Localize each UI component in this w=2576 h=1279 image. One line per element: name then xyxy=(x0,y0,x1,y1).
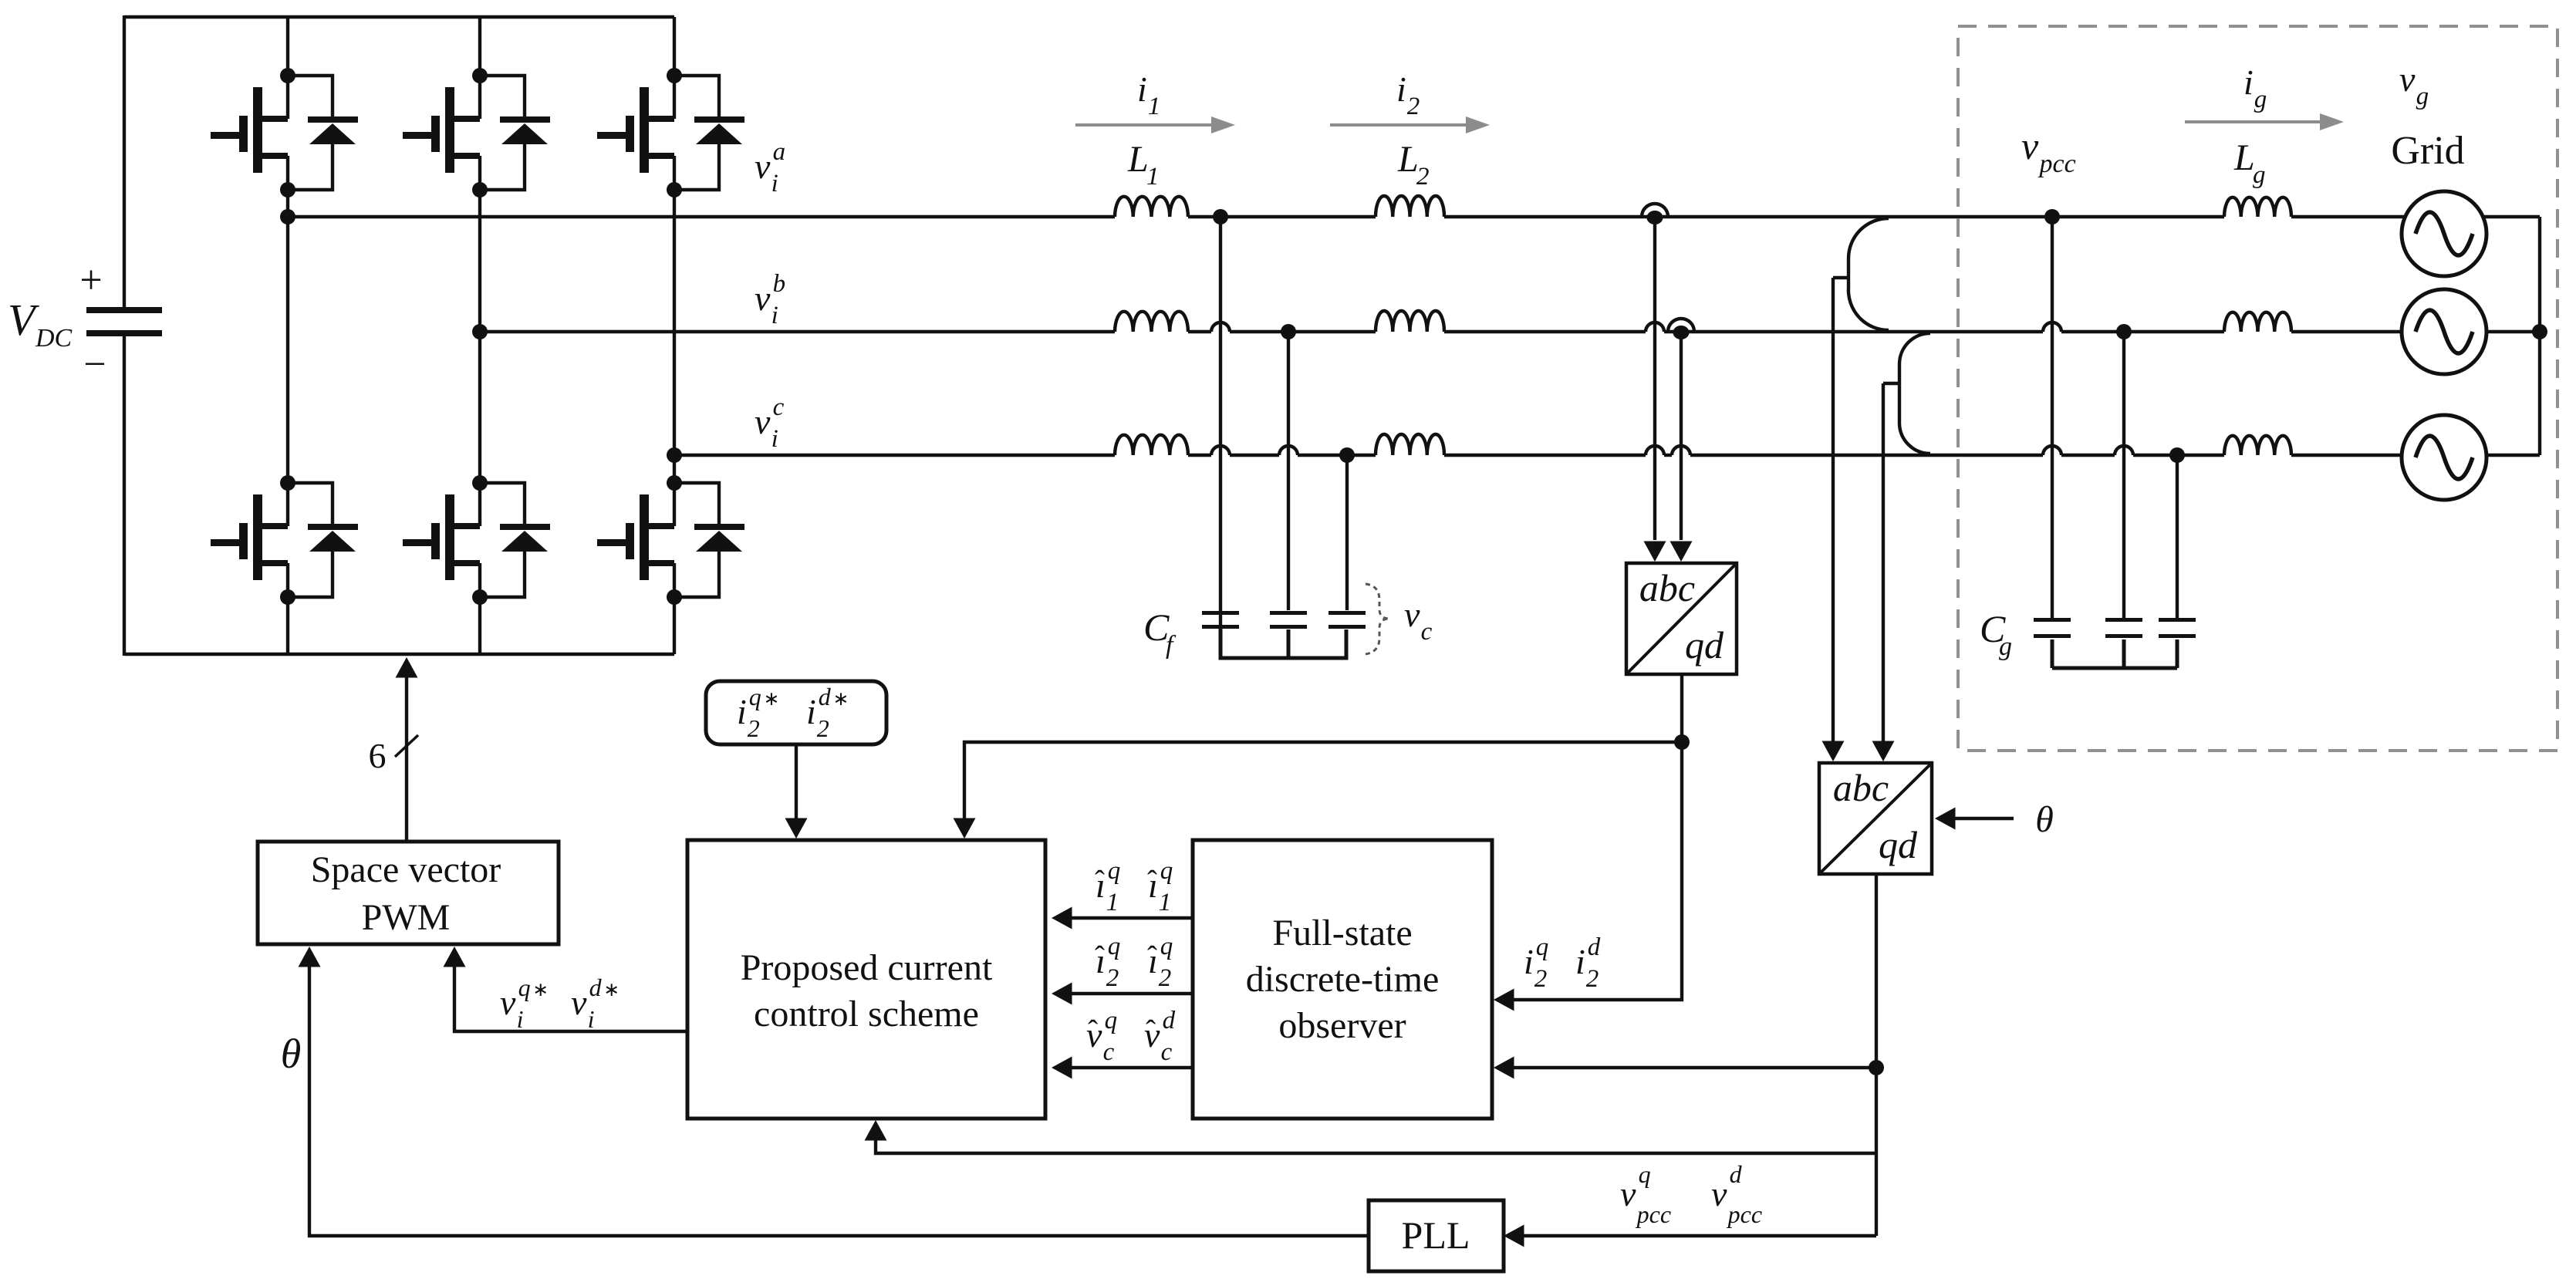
node: phase b output junction xyxy=(472,324,488,339)
svg-text:qd: qd xyxy=(1685,623,1724,666)
block U2: abc/qd transform (vpcc) xyxy=(1819,763,1932,874)
svg-text:c: c xyxy=(1421,618,1433,646)
svg-text:∗: ∗ xyxy=(603,980,620,1001)
transistor Q6 lower MOSFET with body diode, phase c xyxy=(597,475,744,605)
svg-text:v: v xyxy=(1711,1174,1727,1213)
wire: Cg tap phase c xyxy=(2176,455,2179,618)
svg-text:d: d xyxy=(1730,1160,1743,1188)
svg-text:q: q xyxy=(1108,933,1121,960)
svg-text:q: q xyxy=(1639,1160,1651,1188)
svg-text:abc: abc xyxy=(1833,766,1889,809)
inductor Lg phase c xyxy=(2224,436,2291,455)
svg-text:v: v xyxy=(571,983,587,1022)
wire: vpcc tap loop phase a xyxy=(1848,218,1889,330)
svg-text:6: 6 xyxy=(369,736,387,775)
wire: i2 feedback to current control xyxy=(964,742,1682,834)
wire: vi* reference to SVPWM xyxy=(454,953,687,1031)
svg-text:q: q xyxy=(1105,1007,1118,1034)
wire: phase b hop over vpcc tap a xyxy=(2043,322,2061,332)
svg-text:discrete-time: discrete-time xyxy=(1246,959,1440,1000)
wire: phase c conductor xyxy=(674,454,1115,457)
wire: vpcc qd to PLL xyxy=(1510,1234,1876,1237)
svg-text:ˆ: ˆ xyxy=(1088,1014,1098,1048)
svg-text:PLL: PLL xyxy=(1402,1213,1470,1257)
svg-text:i: i xyxy=(806,692,816,731)
transistor Q1 upper MOSFET with body diode, phase a xyxy=(211,68,358,197)
svg-text:PWM: PWM xyxy=(362,897,451,938)
AC source vg phase c xyxy=(2402,415,2487,500)
svg-text:Space vector: Space vector xyxy=(311,849,501,890)
wire: vpcc qd to current control xyxy=(876,1126,1876,1153)
svg-text:c: c xyxy=(773,393,785,421)
wire: phase b hop over Cf tap a xyxy=(1211,322,1230,332)
capacitor Cg phase b xyxy=(2105,618,2142,622)
wire: leg b midpoint to phase line xyxy=(478,190,481,483)
svg-text:Proposed current: Proposed current xyxy=(741,947,993,988)
wire: Cf tap phase b xyxy=(1287,332,1290,610)
svg-text:i: i xyxy=(771,170,778,197)
svg-text:i: i xyxy=(2243,62,2254,102)
node: vpcc phase b xyxy=(2116,324,2132,339)
svg-text:i: i xyxy=(517,1005,524,1033)
wire: current sense b to abc/qd xyxy=(1680,332,1683,540)
capacitor Cf phase b xyxy=(1270,611,1307,615)
block: Proposed current control scheme xyxy=(687,840,1045,1119)
wire: phase c hop over current sense a xyxy=(1646,446,1664,455)
wire: Cg tap phase a xyxy=(2051,217,2054,618)
svg-text:g: g xyxy=(1999,633,2012,661)
svg-text:v: v xyxy=(755,278,771,318)
wire: current sense a to abc/qd xyxy=(1653,217,1656,540)
capacitor Cf phase c xyxy=(1329,611,1366,615)
capacitor Cg phase a xyxy=(2034,618,2071,622)
label 6 with slash xyxy=(395,735,418,757)
svg-text:q: q xyxy=(1160,857,1173,885)
wire: top DC rail xyxy=(124,15,674,19)
svg-text:+: + xyxy=(79,258,102,302)
wire: leg a midpoint to phase line xyxy=(286,190,289,483)
svg-text:i: i xyxy=(771,425,778,453)
wire: leg a upper (rail to transistor) xyxy=(286,17,289,76)
wire: leg c midpoint to phase line xyxy=(673,190,676,483)
wire: vpcc qd feedback trunk xyxy=(1875,874,1878,1236)
block: Space vector PWM xyxy=(258,842,559,944)
node: Cf tap c junction xyxy=(1339,447,1355,463)
wire: current arrow ig xyxy=(2185,120,2335,123)
svg-text:θ: θ xyxy=(2035,799,2054,840)
svg-text:2: 2 xyxy=(1407,93,1420,120)
svg-text:2: 2 xyxy=(1159,964,1172,992)
svg-text:abc: abc xyxy=(1639,566,1695,609)
transistor Q5 upper MOSFET with body diode, phase c xyxy=(597,68,744,197)
node: vpcc qd junction xyxy=(1869,1060,1884,1075)
wire: leg c upper (rail to transistor) xyxy=(673,17,676,76)
svg-text:ˆ: ˆ xyxy=(1095,865,1105,898)
wire: theta input to abc/qd xyxy=(1941,817,2014,820)
svg-text:q: q xyxy=(1536,933,1549,961)
wire: leg b upper (rail to transistor) xyxy=(478,17,481,76)
wire: Cg stub b xyxy=(2122,639,2126,668)
wire: Cg bottom bus xyxy=(2052,666,2177,670)
wire: phase a conductor xyxy=(288,215,1115,218)
transistor Q2 lower MOSFET with body diode, phase a xyxy=(211,475,358,605)
svg-text:ˆ: ˆ xyxy=(1146,1014,1156,1048)
wire: observer output vchat xyxy=(1058,1066,1193,1069)
wire: phase c hop over Cf tap b xyxy=(1279,446,1298,455)
svg-text:g: g xyxy=(2253,161,2266,189)
capacitor Cf phase a xyxy=(1202,611,1239,615)
wire: Cg stub c xyxy=(2176,639,2179,668)
wire: bottom DC rail xyxy=(124,653,674,656)
inductor L1 phase a xyxy=(1115,197,1188,217)
svg-text:qd: qd xyxy=(1879,823,1918,866)
svg-text:2: 2 xyxy=(1416,163,1430,191)
svg-text:ˆ: ˆ xyxy=(1095,940,1105,974)
svg-text:1: 1 xyxy=(1146,163,1160,191)
svg-text:2: 2 xyxy=(1586,965,1599,993)
svg-text:c: c xyxy=(1103,1038,1115,1066)
wire: Cg stub a xyxy=(2051,639,2054,668)
inductor L2 phase b xyxy=(1376,311,1444,332)
svg-text:∗: ∗ xyxy=(832,689,849,710)
node: Cf tap a junction xyxy=(1213,209,1228,224)
svg-text:DC: DC xyxy=(35,324,73,353)
svg-text:∗: ∗ xyxy=(532,980,549,1001)
svg-text:v: v xyxy=(1620,1174,1636,1213)
node: grid neutral junction xyxy=(2532,324,2547,339)
svg-text:control scheme: control scheme xyxy=(754,994,979,1034)
svg-text:v: v xyxy=(755,402,771,441)
wire: current arrow i1 xyxy=(1075,123,1226,127)
wire: Cf bottom bus xyxy=(1220,626,1346,658)
svg-text:∗: ∗ xyxy=(763,689,779,710)
wire: DC source left leads xyxy=(123,15,126,310)
svg-text:observer: observer xyxy=(1278,1005,1406,1046)
svg-text:q: q xyxy=(749,683,761,710)
wire: Cf tap phase c xyxy=(1345,455,1349,610)
capacitor Cg phase c xyxy=(2159,618,2196,622)
svg-text:Grid: Grid xyxy=(2391,129,2464,173)
AC source vg phase a xyxy=(2402,191,2487,276)
svg-text:v: v xyxy=(500,983,516,1022)
svg-text:1: 1 xyxy=(1148,93,1161,120)
wire: i2 feedback to observer xyxy=(1500,742,1682,1000)
inductor L1 phase c xyxy=(1115,435,1188,455)
wire: vpcc qd to observer xyxy=(1500,1066,1876,1069)
wire: vpcc tap loop phase b xyxy=(1899,333,1930,454)
wire: leg b lower (transistor to rail) xyxy=(478,597,481,654)
svg-text:g: g xyxy=(2254,86,2267,113)
node: vpcc phase c xyxy=(2169,447,2185,463)
svg-text:ˆ: ˆ xyxy=(1147,865,1157,898)
svg-text:Full-state: Full-state xyxy=(1272,913,1412,953)
svg-text:ˆ: ˆ xyxy=(1147,940,1157,974)
wire: phase c hop over vpcc tap b xyxy=(2115,446,2133,455)
svg-text:pcc: pcc xyxy=(1636,1200,1671,1228)
inductor Lg phase a xyxy=(2224,197,2291,217)
svg-text:2: 2 xyxy=(748,714,760,742)
inductor L2 phase c xyxy=(1376,434,1444,455)
wire: vpcc sense b to abc/qd xyxy=(1882,383,1885,752)
svg-text:pcc: pcc xyxy=(1727,1200,1762,1228)
wire: grid right bus xyxy=(2483,215,2540,218)
wire: phase b conductor xyxy=(480,330,1115,333)
svg-text:d: d xyxy=(819,683,832,710)
svg-text:i: i xyxy=(1396,69,1406,109)
svg-text:d: d xyxy=(589,974,603,1001)
svg-text:−: − xyxy=(83,343,106,386)
wire: phase c hop over current sense b xyxy=(1672,446,1690,455)
svg-text:q: q xyxy=(1108,857,1121,885)
node: phase c output junction xyxy=(667,447,682,463)
boundary: grid dashed box xyxy=(1958,26,2557,751)
svg-text:i: i xyxy=(771,302,778,329)
svg-text:q: q xyxy=(1160,933,1173,960)
svg-text:i: i xyxy=(1137,69,1147,109)
svg-text:θ: θ xyxy=(281,1031,302,1077)
wire: Cg tap phase b xyxy=(2122,332,2125,618)
svg-text:v: v xyxy=(1404,595,1420,634)
wire: current arrow i2 xyxy=(1330,123,1480,127)
wire: observer output i2hat xyxy=(1058,992,1193,995)
label vc with brace xyxy=(1366,584,1389,654)
transistor Q3 upper MOSFET with body diode, phase b xyxy=(403,68,550,197)
svg-text:pcc: pcc xyxy=(2038,150,2076,178)
wire: Cf tap phase a xyxy=(1219,217,1222,625)
wire: theta from PLL to SVPWM xyxy=(309,953,1369,1236)
wire: leg c lower (transistor to rail) xyxy=(673,597,676,654)
svg-text:1: 1 xyxy=(1106,889,1119,916)
block: Full-state discrete-time observer xyxy=(1193,840,1492,1119)
svg-text:2: 2 xyxy=(1534,965,1548,993)
svg-text:c: c xyxy=(1161,1038,1173,1066)
svg-text:b: b xyxy=(773,270,786,298)
svg-text:d: d xyxy=(1588,933,1601,961)
svg-text:L: L xyxy=(1127,139,1149,180)
wire: phase c hop over Cf tap a xyxy=(1211,446,1230,455)
svg-text:1: 1 xyxy=(1159,889,1172,916)
wire: observer output i1hat xyxy=(1058,916,1193,920)
AC source vg phase b xyxy=(2402,289,2487,374)
inductor L2 phase a xyxy=(1376,196,1444,217)
svg-text:a: a xyxy=(773,138,786,166)
svg-text:i: i xyxy=(1524,942,1534,981)
wire: phase b hop over current sense a xyxy=(1646,322,1664,332)
svg-text:i: i xyxy=(1575,942,1585,981)
svg-text:v: v xyxy=(2399,59,2416,99)
current sensor on phase b xyxy=(1668,319,1694,332)
svg-text:i: i xyxy=(588,1005,595,1033)
block U1: abc/qd transform (current) xyxy=(1626,563,1737,674)
wire: gate signals to inverter (6) xyxy=(405,663,408,842)
block: current reference i2* xyxy=(706,681,886,744)
inductor Lg phase b xyxy=(2224,312,2291,332)
svg-text:L: L xyxy=(1397,139,1419,180)
svg-text:v: v xyxy=(2021,124,2039,167)
svg-text:2: 2 xyxy=(817,714,829,742)
svg-text:g: g xyxy=(2416,83,2429,110)
node: vpcc phase a xyxy=(2044,209,2060,224)
inductor L1 phase b xyxy=(1115,312,1188,332)
node: Cf tap b junction xyxy=(1281,324,1296,339)
current sensor on phase a xyxy=(1642,204,1668,217)
svg-text:L: L xyxy=(2233,137,2255,178)
transistor Q4 lower MOSFET with body diode, phase b xyxy=(403,475,550,605)
svg-text:d: d xyxy=(1163,1007,1176,1034)
wire: vpcc sense a to abc/qd xyxy=(1832,278,1835,752)
wire: leg a lower (transistor to rail) xyxy=(286,597,289,654)
wire: phase c hop over vpcc tap a xyxy=(2043,446,2061,455)
svg-text:i: i xyxy=(737,692,747,731)
svg-text:2: 2 xyxy=(1106,964,1119,992)
node: phase a output junction xyxy=(280,209,295,224)
capacitor VDC (DC-link source) xyxy=(86,307,162,313)
svg-text:v: v xyxy=(755,147,771,186)
wire: abc/qd current output xyxy=(1680,674,1683,742)
svg-text:q: q xyxy=(518,974,531,1001)
node: i2 measurement junction xyxy=(1674,734,1690,750)
block PLL xyxy=(1369,1200,1504,1271)
wire: reference into current control xyxy=(795,744,798,834)
